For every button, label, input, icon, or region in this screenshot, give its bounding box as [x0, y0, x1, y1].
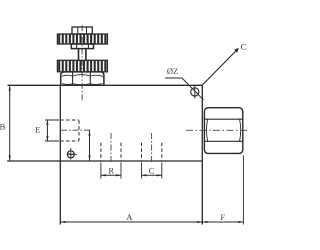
valve body block — [7, 85, 202, 224]
dimension E — [45, 120, 59, 141]
port C centerline — [151, 133, 153, 164]
svg-text:F: F — [220, 212, 225, 222]
svg-text:E: E — [35, 124, 40, 134]
svg-text:ØZ: ØZ — [167, 66, 178, 76]
orifice Z leader — [165, 78, 203, 100]
dimension port E depth — [88, 130, 90, 161]
dimension C (bottom) — [142, 163, 162, 179]
hex locknut — [61, 72, 104, 85]
port E centerline — [61, 129, 92, 131]
hex end fitting — [204, 108, 242, 154]
fitting centerline — [186, 129, 249, 131]
port C leader arrow — [203, 48, 239, 85]
port C hidden bore (dashed) — [142, 143, 162, 161]
dimension B — [9, 85, 11, 161]
knob top cap — [72, 27, 92, 34]
svg-text:A: A — [126, 212, 133, 222]
knob centerline — [81, 25, 83, 100]
dimension R — [101, 163, 121, 179]
port E hidden bore (dashed) — [60, 120, 79, 141]
port R hidden bore (dashed) — [101, 143, 121, 161]
side hole symbol — [67, 148, 77, 160]
threaded stem — [79, 49, 86, 61]
lower knurled wheel — [57, 60, 107, 72]
upper knurled wheel — [57, 34, 107, 44]
svg-text:C: C — [149, 165, 155, 175]
svg-text:B: B — [0, 122, 6, 132]
dimension A — [60, 221, 202, 223]
port R centerline — [110, 133, 112, 164]
svg-text:C: C — [241, 42, 247, 52]
dimension F — [202, 156, 243, 225]
knob flange washer — [71, 44, 93, 49]
svg-text:R: R — [108, 165, 114, 175]
orifice Z circle — [191, 86, 199, 99]
